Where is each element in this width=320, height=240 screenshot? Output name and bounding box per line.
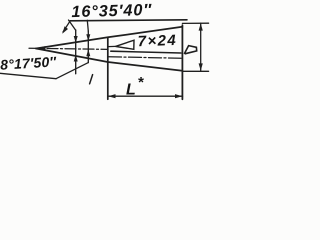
arrowhead V1 up onto bottom generator (74, 55, 78, 62)
arrowhead V2 up onto centerline (86, 49, 90, 56)
wire top extension line for D (182, 22, 208, 24)
wire angle dimension line V1 full angle (75, 30, 77, 74)
wire bottom extension line for D (182, 70, 208, 72)
wire leader from shelf down-left (63, 21, 70, 32)
wire dimension line L horizontal (108, 95, 183, 97)
svg-text:16°35′40″: 16°35′40″ (71, 1, 152, 21)
wire top generator line from apex to right edge (36, 27, 182, 49)
svg-text:7×24: 7×24 (137, 32, 177, 50)
wire frustum left edge and L extension line (107, 37, 109, 99)
node apex wedge of cone (35, 46, 46, 51)
wire centerline inside frustum dash-dot (109, 57, 182, 58)
arrowhead V1 down onto top generator (74, 36, 78, 43)
taper symbol triangle (116, 40, 135, 49)
arrowhead D up (199, 23, 203, 30)
arrowhead L left (108, 94, 116, 98)
arrowhead D down (199, 63, 203, 70)
label D flag symbol (185, 46, 197, 54)
wire underline of 8 deg label (0, 73, 56, 78)
wire leader of 8 deg label (56, 63, 88, 79)
wire dimension line D vertical (200, 23, 202, 71)
wire centerline left dash-dot (29, 48, 108, 49)
wire bottom generator line from apex to right edge (36, 49, 182, 71)
arrowhead L right (175, 94, 183, 98)
wire frustum right edge and L extension line (181, 25, 183, 99)
svg-text:L: L (126, 81, 136, 98)
wire small tick below V2 (90, 75, 93, 84)
wire connector shelf to V1 (69, 20, 76, 30)
wire taper label shelf (111, 51, 181, 53)
wire taper label leader stub (108, 45, 115, 47)
arrowhead V2 down onto top generator (86, 34, 90, 41)
arrowhead of top-left leader (62, 26, 68, 34)
wire leader shelf of 16 deg label (70, 20, 187, 21)
wire angle dimension line V2 half angle (87, 31, 89, 63)
wire connector shelf to V2 (87, 20, 88, 31)
